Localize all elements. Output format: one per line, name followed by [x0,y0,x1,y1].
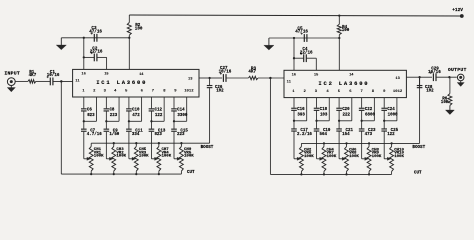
capacitor C5 47/16 [303,34,305,42]
output jack J2 [457,74,464,81]
ground IC2 filter [268,38,270,46]
potentiometer VR1 CH1 wiper arrow [84,158,88,160]
svg-text:122: 122 [387,133,395,137]
svg-text:4K7: 4K7 [248,70,256,75]
svg-text:12: 12 [189,89,194,93]
wire band5 pin wires IC2 [383,98,385,108]
svg-text:C14: C14 [177,109,185,113]
wire band2 pin wires IC2 [316,98,318,108]
wire pin14 riser IC2 [338,38,340,70]
capacitor C10 472 [126,108,132,110]
capacitor C7 4.7/16 [81,128,87,130]
capacitor C19 564 [314,128,320,130]
wire ground-line IC1 pin16/pin14 [61,37,129,39]
wire band4 pin wires IC1 [150,97,152,108]
capacitor C9 1/50 [104,128,110,130]
wire cut rail IC2 [270,173,391,175]
potentiometer VR7 CH4 100K [323,143,325,146]
node +12V terminal [460,14,464,18]
svg-text:C12: C12 [155,109,163,113]
svg-text:393: 393 [297,114,305,118]
svg-text:C10: C10 [132,109,140,113]
ground input jack [10,86,12,89]
svg-text:22/16: 22/16 [90,50,103,55]
wire C1 to IC1 pin11 [53,80,73,82]
op-amp IC2 LA3600 equalizer IC [284,70,406,97]
wire pin14 riser IC1 [128,38,130,70]
svg-text:IC1 LA3600: IC1 LA3600 [96,79,147,86]
svg-text:OUTPUT: OUTPUT [448,67,467,73]
potentiometer VR6 CH2 wiper arrow [294,158,298,160]
potentiometer VR8 CH6 100K [346,143,348,146]
capacitor C25 122 [381,128,387,130]
svg-text:4.7/16: 4.7/16 [87,132,102,137]
potentiometer VR3 CH5 100K [135,143,137,146]
wire band1 pin wires IC2 [293,98,295,108]
svg-text:6800: 6800 [365,114,375,118]
wire C27 to R3 [226,77,248,79]
svg-text:100K: 100K [304,155,314,159]
svg-text:47/16: 47/16 [295,30,308,35]
svg-text:154: 154 [342,133,350,137]
svg-text:103: 103 [320,114,328,118]
svg-text:IC2 LA3600: IC2 LA3600 [318,80,369,87]
svg-text:100K: 100K [161,155,171,159]
potentiometer VR10 CH10 100K [391,143,393,146]
svg-text:102: 102 [216,90,224,94]
capacitor C23 473 [359,128,365,130]
node R6 junction [448,76,450,78]
wire ground-line IC2 pin16/pin14 [269,37,339,39]
svg-text:100K: 100K [94,155,104,159]
ground R6 [449,105,451,110]
potentiometer VR2 CH3 wiper arrow [106,158,110,160]
capacitor C13 823 [149,128,155,130]
svg-text:13: 13 [395,77,400,81]
resistor R3 4K7 [248,76,258,79]
resistor R2 100 [128,15,130,23]
ground output jack [460,81,462,83]
wire pin13 output IC2 [406,76,419,78]
svg-text:C16: C16 [297,108,305,112]
svg-text:14: 14 [349,74,354,78]
svg-text:C8: C8 [109,109,114,113]
potentiometer VR4 CH7 wiper arrow [151,158,155,160]
svg-text:C24: C24 [387,108,395,112]
svg-text:10/16: 10/16 [219,70,232,75]
node NF junction IC1 [60,80,62,82]
potentiometer VR9 CH8 wiper arrow [362,158,366,160]
svg-text:BOOST: BOOST [412,145,425,150]
wire cut rail IC1 [61,173,181,175]
svg-text:14: 14 [139,73,144,77]
svg-text:222: 222 [343,114,351,118]
svg-text:100K: 100K [349,155,359,159]
svg-text:100K: 100K [327,155,337,159]
svg-text:BOOST: BOOST [201,145,214,150]
svg-text:10/16: 10/16 [428,70,441,75]
svg-text:47/16: 47/16 [89,29,102,34]
svg-text:100: 100 [342,28,350,33]
wire IC1 pin13 to C27 [210,77,223,79]
node NF junction IC2 [269,77,271,79]
wire pin16 riser IC2 [293,38,295,70]
capacitor C16 393 [291,107,297,109]
svg-text:10K: 10K [441,100,449,105]
wire input to R1 [15,80,28,82]
capacitor C11 334 [126,128,132,130]
wire pin16 riser IC1 [83,38,85,70]
capacitor C14 3300 [171,108,177,110]
capacitor C15 223 [171,128,177,130]
svg-text:823: 823 [87,114,95,118]
svg-text:11: 11 [287,80,292,84]
potentiometer VR10 CH10 wiper arrow [384,158,388,160]
svg-text:22/16: 22/16 [300,50,313,55]
wire band3 pin wires IC1 [128,97,130,108]
svg-text:13: 13 [188,78,193,82]
svg-text:100K: 100K [184,155,194,159]
capacitor C26 102 [209,78,211,85]
wire band1 pin wires IC1 [83,97,85,108]
svg-text:C18: C18 [320,108,328,112]
wire band2 pin wires IC1 [105,97,107,108]
svg-text:15: 15 [104,73,109,77]
ground IC1 filter [60,38,62,46]
capacitor C24 1000 [381,107,387,109]
wire pin15 riser IC1 [106,57,108,69]
svg-text:3300: 3300 [177,114,187,118]
svg-text:2.2/16: 2.2/16 [297,132,312,137]
svg-text:1000: 1000 [388,114,398,118]
capacitor C28 102 [419,77,421,85]
svg-text:100K: 100K [394,155,404,159]
potentiometer VR2 CH3 100K [113,143,115,146]
wire band4 pin wires IC2 [361,98,363,108]
wire boost rail IC1 [91,142,209,144]
svg-text:100K: 100K [372,155,382,159]
capacitor C4 22/16 [294,57,304,59]
svg-text:CUT: CUT [414,171,422,176]
svg-text:10/16: 10/16 [47,73,60,78]
capacitor C2 22/16 [84,56,95,58]
svg-text:16: 16 [81,73,85,77]
svg-text:16: 16 [292,74,296,78]
potentiometer VR8 CH6 wiper arrow [339,158,343,160]
wire R3 to IC2 pin11 [258,77,284,79]
svg-text:823: 823 [154,133,162,137]
svg-text:223: 223 [110,114,118,118]
wire IC2 pin13 to C29 [420,76,432,78]
svg-text:11: 11 [75,79,80,83]
capacitor C21 154 [336,128,342,130]
wire pin15 riser IC2 [315,58,317,70]
capacitor C3 47/16 [93,34,95,42]
capacitor C17 2.2/16 [291,128,297,130]
svg-text:472: 472 [132,114,140,118]
potentiometer VR9 CH8 100K [368,143,370,146]
svg-text:C6: C6 [87,109,92,113]
potentiometer VR5 CH9 100K [180,143,182,146]
svg-text:INPUT: INPUT [4,70,20,76]
wire band5 pin wires IC1 [173,97,175,108]
wire band3 pin wires IC2 [338,98,340,108]
svg-text:CUT: CUT [187,170,195,175]
resistor R6 10K [449,77,451,93]
potentiometer VR7 CH4 wiper arrow [317,158,321,160]
capacitor C8 223 [104,108,110,110]
capacitor C6 823 [81,108,87,110]
capacitor C27 10/16 [222,74,224,82]
capacitor C29 10/16 [432,73,434,81]
wire R4 top junction [338,14,340,16]
svg-text:334: 334 [132,133,140,137]
svg-text:473: 473 [365,133,373,137]
svg-text:C20: C20 [342,108,350,112]
wire boost rail IC2 [301,142,419,144]
potentiometer VR5 CH9 wiper arrow [174,158,178,160]
svg-text:15: 15 [314,74,319,78]
input jack J1 [7,78,15,86]
svg-text:100K: 100K [116,155,126,159]
svg-text:223: 223 [177,133,185,137]
op-amp IC1 LA3600 equalizer IC [73,69,199,97]
svg-text:100: 100 [135,26,143,31]
capacitor C22 6800 [359,107,365,109]
capacitor C20 222 [336,107,342,109]
potentiometer VR6 CH2 100K [300,143,302,146]
potentiometer VR1 CH1 100K [90,143,92,146]
svg-text:+12V: +12V [452,7,463,13]
capacitor C12 122 [149,108,155,110]
potentiometer VR3 CH5 wiper arrow [129,158,133,160]
node +12V supply rail [129,15,462,16]
resistor R1 4K7 [28,80,36,83]
capacitor C1 10/16 [49,78,51,86]
wire R1 to C1 [36,80,50,82]
svg-text:564: 564 [320,133,328,137]
resistor R4 100 [338,15,340,24]
potentiometer VR4 CH7 100K [158,143,160,146]
wire pin13 output IC1 [199,77,210,79]
svg-text:122: 122 [155,114,163,118]
capacitor C18 103 [314,107,320,109]
svg-text:100K: 100K [139,155,149,159]
svg-text:12: 12 [398,90,403,94]
svg-text:1/50: 1/50 [109,132,119,137]
svg-text:C22: C22 [365,108,373,112]
svg-text:102: 102 [426,90,434,94]
wire C29 to output jack [436,76,457,78]
svg-text:4K7: 4K7 [29,73,37,78]
